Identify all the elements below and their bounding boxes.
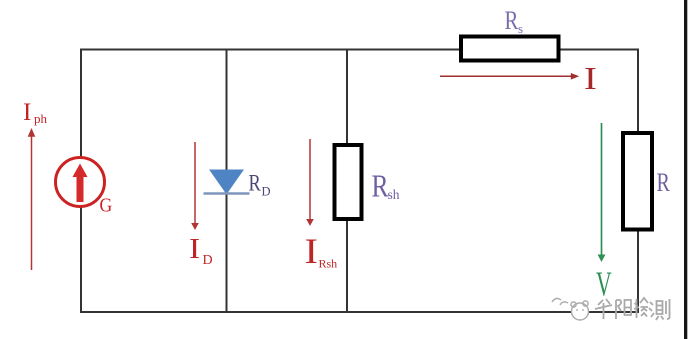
svg-text:I: I: [189, 232, 200, 264]
arrow I_ph: [28, 128, 36, 270]
current label I_ph: [23, 99, 48, 126]
diode D: [204, 170, 250, 194]
svg-text:Rsh: Rsh: [319, 257, 338, 271]
black border bar right edge: [684, 0, 687, 339]
wire bottom rail: [81, 311, 638, 313]
wire left branch: [80, 49, 82, 314]
arrow I_D: [191, 142, 199, 230]
resistor R load: [623, 133, 652, 230]
arrow I_Rsh: [306, 139, 314, 226]
voltage label V: [596, 265, 612, 303]
label R: [657, 169, 671, 198]
svg-text:I: I: [584, 61, 597, 96]
resistor R_sh: [335, 145, 362, 219]
wire diode branch: [226, 49, 228, 314]
watermark logo: [552, 298, 589, 320]
svg-text:R: R: [505, 7, 519, 36]
wire top rail: [81, 49, 638, 51]
svg-text:R: R: [657, 169, 671, 198]
svg-text:R: R: [249, 170, 261, 197]
svg-text:D: D: [262, 185, 271, 199]
label R_D: [249, 170, 271, 199]
current label I_Rsh: [305, 232, 338, 272]
wire right branch: [637, 49, 639, 314]
arrow V: [598, 123, 606, 262]
svg-text:ph: ph: [34, 111, 48, 126]
svg-text:I: I: [23, 99, 31, 126]
svg-text:G: G: [100, 195, 113, 217]
svg-text:D: D: [203, 253, 213, 268]
arrow I output: [440, 73, 579, 80]
svg-text:sh: sh: [388, 187, 400, 202]
svg-text:s: s: [518, 21, 523, 36]
watermark text 华阳检测: [595, 298, 670, 320]
wire shunt branch: [346, 49, 348, 314]
svg-text:I: I: [305, 232, 318, 272]
svg-text:V: V: [596, 265, 612, 303]
current source G: [56, 158, 113, 217]
current label I_D: [189, 232, 213, 268]
label R_s: [505, 7, 524, 36]
current label I: [584, 61, 597, 96]
label R_sh: [372, 169, 400, 204]
resistor R_s: [461, 37, 559, 61]
